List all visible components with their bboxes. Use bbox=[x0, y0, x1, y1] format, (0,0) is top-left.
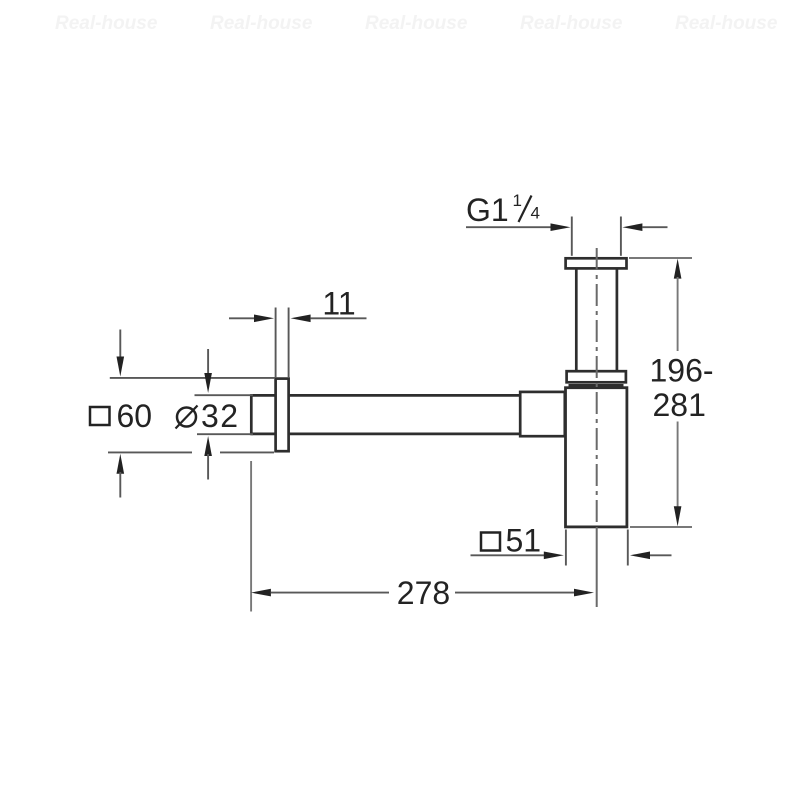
wall flange escutcheon bbox=[276, 379, 289, 452]
diameter symbol bbox=[177, 408, 196, 427]
gasket bbox=[569, 384, 624, 387]
11 dim line left bbox=[229, 317, 256, 319]
svg-text:11: 11 bbox=[322, 286, 355, 322]
278 dim line right bbox=[455, 592, 575, 594]
196 dim line lower bbox=[677, 422, 679, 509]
51 left arrow bbox=[544, 552, 564, 560]
32 top arrow line bbox=[207, 349, 209, 375]
51 dim line right bbox=[650, 554, 672, 556]
trap body cup bbox=[566, 388, 627, 527]
51 left extension line bbox=[565, 530, 567, 566]
watermark row bbox=[55, 13, 778, 34]
60 bottom extension line bbox=[108, 451, 192, 453]
11 left arrow bbox=[254, 315, 274, 323]
connecting nut bbox=[520, 392, 565, 436]
60 bottom arrow bbox=[117, 454, 125, 474]
G1 right extension line bbox=[620, 217, 622, 256]
inlet pipe top edge bbox=[251, 394, 521, 397]
square symbol 60 bbox=[90, 407, 110, 425]
svg-text:Real-house: Real-house bbox=[675, 13, 778, 34]
196 top extension line bbox=[629, 257, 692, 259]
G1 left extension line bbox=[571, 217, 573, 256]
60 bottom arrow line bbox=[119, 472, 121, 498]
278 right arrow bbox=[574, 589, 594, 597]
svg-text:278: 278 bbox=[397, 575, 450, 611]
lower flange nut bbox=[567, 371, 626, 382]
60 top arrow bbox=[117, 357, 125, 377]
svg-text:Real-house: Real-house bbox=[365, 13, 468, 34]
60 bottom extension line b bbox=[220, 451, 274, 453]
center line dash-dot bbox=[596, 248, 598, 527]
svg-text:196-: 196- bbox=[650, 353, 714, 389]
svg-text:51: 51 bbox=[506, 523, 542, 559]
G1 left arrow bbox=[551, 223, 571, 231]
32 top extension line bbox=[195, 394, 254, 396]
G1 dim line right bbox=[642, 226, 667, 228]
G1 right arrow bbox=[622, 223, 642, 231]
outlet pipe left wall bbox=[575, 270, 578, 372]
square symbol 51 bbox=[481, 533, 500, 551]
11 right extension line bbox=[288, 308, 290, 379]
inlet pipe left end cap bbox=[250, 394, 253, 435]
32 bottom arrow line bbox=[207, 454, 209, 480]
32 bottom arrow bbox=[204, 436, 212, 456]
svg-text:Real-house: Real-house bbox=[520, 13, 623, 34]
center line extension below cup bbox=[596, 527, 598, 607]
svg-text:281: 281 bbox=[653, 387, 706, 423]
11 dim line right bbox=[311, 317, 367, 319]
11 right arrow bbox=[291, 315, 311, 323]
60 top extension line bbox=[110, 377, 275, 379]
51 dim line left bbox=[471, 554, 546, 556]
196 dim line upper bbox=[677, 277, 679, 351]
svg-text:4: 4 bbox=[531, 204, 540, 223]
svg-text:1: 1 bbox=[513, 191, 522, 210]
32 top arrow bbox=[204, 373, 212, 393]
51 right extension line bbox=[627, 530, 629, 566]
svg-text:G1: G1 bbox=[466, 192, 509, 228]
278 dim line left bbox=[271, 592, 389, 594]
51 right arrow bbox=[630, 552, 650, 560]
196 top arrow bbox=[674, 259, 682, 279]
svg-text:Real-house: Real-house bbox=[55, 13, 158, 34]
G1 dim line left bbox=[466, 226, 552, 228]
60 top arrow line bbox=[119, 330, 121, 359]
outlet pipe right wall bbox=[616, 270, 619, 372]
top flange bbox=[566, 258, 627, 268]
svg-text:60: 60 bbox=[117, 398, 153, 434]
svg-text:32: 32 bbox=[201, 398, 240, 434]
inlet pipe bottom edge bbox=[251, 433, 521, 436]
11 left extension line bbox=[275, 308, 277, 379]
196 bottom extension line bbox=[630, 526, 692, 528]
278 left arrow bbox=[251, 589, 271, 597]
278 left extension line bbox=[250, 461, 252, 612]
svg-text:Real-house: Real-house bbox=[210, 13, 313, 34]
32 bottom extension line bbox=[197, 433, 253, 435]
196 bottom arrow bbox=[674, 506, 682, 526]
